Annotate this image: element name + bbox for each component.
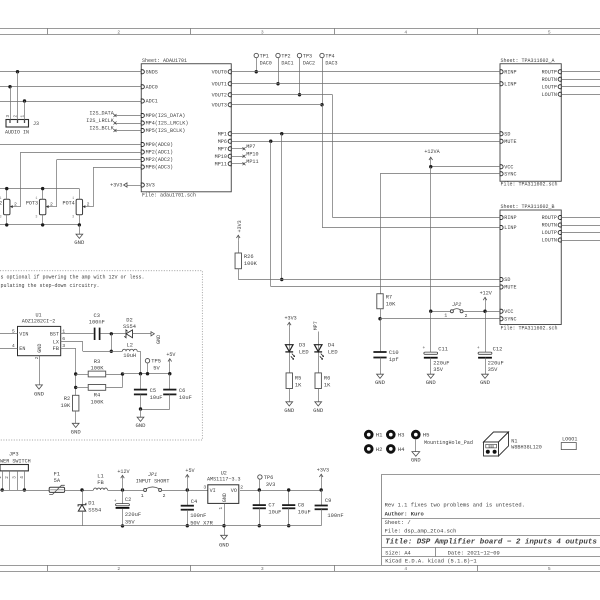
wire J3 pin2 up: [17, 72, 19, 120]
wire I2S_DATA: [115, 115, 141, 117]
svg-text:POT2: POT2: [0, 201, 2, 207]
junction TP1: [255, 70, 258, 73]
title block: [381, 474, 383, 565]
junction VCC A: [429, 165, 432, 168]
svg-text:GND: GND: [411, 458, 421, 464]
sheet B pin VCC: [500, 309, 503, 313]
svg-text:888: 888: [488, 445, 494, 449]
svg-text:C8: C8: [298, 502, 304, 508]
wire TP4 down: [322, 57, 324, 104]
svg-text:1K: 1K: [324, 382, 331, 388]
svg-text:R26: R26: [244, 254, 254, 260]
sheet A pin ROUTN: [558, 77, 561, 81]
sheet B pin ROUTN: [558, 223, 561, 227]
svg-text:1: 1: [72, 197, 74, 201]
sheet A pin ROUTP: [558, 70, 561, 74]
svg-text:+3V3: +3V3: [110, 183, 122, 189]
sheet A pin RINP: [500, 70, 503, 74]
junction SD B: [280, 278, 283, 281]
junction +12V input: [121, 488, 124, 491]
svg-text:10K: 10K: [60, 403, 70, 409]
capacitor C2: [122, 490, 124, 504]
connector J3 AUDIO IN: [6, 120, 29, 128]
svg-text:SD: SD: [504, 277, 510, 283]
svg-text:ADC1: ADC1: [146, 99, 158, 105]
svg-text:GND: GND: [219, 542, 230, 549]
svg-text:5A: 5A: [54, 478, 61, 484]
svg-text:File: adau1701.sch: File: adau1701.sch: [142, 193, 196, 199]
svg-text:4: 4: [404, 566, 407, 572]
ground D4: [318, 389, 320, 402]
svg-text:C6: C6: [179, 388, 185, 394]
svg-text:+3V3: +3V3: [317, 467, 329, 473]
svg-text:5V: 5V: [153, 366, 160, 372]
sheet A pin VCC: [500, 165, 503, 169]
wire F1 to L1: [64, 490, 93, 492]
jumper JP1 input short: [144, 489, 147, 492]
svg-text:Sheet: ADAU1701: Sheet: ADAU1701: [142, 58, 187, 64]
sheet A pin LOUTP: [558, 85, 561, 89]
svg-text:AOZ1282CI−2: AOZ1282CI−2: [22, 319, 56, 325]
svg-text:H1: H1: [376, 432, 383, 439]
pin 5 VIN: [0, 333, 18, 335]
wire MP6 down: [270, 141, 272, 286]
sheet B pin LOUTN: [558, 238, 561, 242]
svg-text:2: 2: [35, 356, 40, 359]
svg-text:2: 2: [465, 313, 468, 319]
svg-text:MP7: MP7: [218, 146, 227, 152]
border frame bottom ruler: [0, 565, 600, 567]
sheet pin GNDS: [141, 70, 144, 74]
junction JP3 pin4: [23, 488, 26, 491]
svg-text:10uF: 10uF: [150, 395, 163, 401]
ground C10: [380, 358, 382, 375]
svg-text:2: 2: [240, 485, 243, 491]
wire VOUT0 to RINP A: [231, 71, 500, 73]
junction C7 gnd: [258, 524, 261, 527]
svg-text:+: +: [477, 346, 480, 351]
svg-text:C4: C4: [191, 499, 197, 505]
junction J3 pin3: [8, 85, 11, 88]
junction MP6: [269, 140, 272, 143]
wire LOUTP A to edge: [561, 86, 600, 88]
svg-text:4: 4: [404, 29, 407, 35]
svg-text:MP10: MP10: [246, 151, 258, 157]
svg-text:+5V: +5V: [185, 468, 195, 474]
sheet pin MP4(I2S_LRCLK): [141, 121, 144, 125]
svg-text:MP1: MP1: [218, 131, 227, 137]
svg-text:LOUTP: LOUTP: [542, 230, 557, 236]
svg-text:LX: LX: [53, 339, 59, 345]
wire VOUT2 to RINP B: [333, 217, 501, 219]
svg-text:AMS1117−3.3: AMS1117−3.3: [207, 477, 241, 483]
sheet B pin LINP: [500, 226, 503, 230]
svg-text:D4: D4: [328, 342, 334, 348]
svg-text:R4: R4: [94, 393, 100, 399]
junction +3V3 C9: [320, 488, 323, 491]
svg-text:H3: H3: [398, 432, 405, 439]
sheet pin VOUT0: [228, 70, 231, 74]
svg-text:R2: R2: [64, 396, 70, 402]
svg-text:1: 1: [35, 197, 37, 201]
svg-text:VOUT2: VOUT2: [212, 92, 227, 98]
svg-text:1pf: 1pf: [389, 357, 399, 363]
resistor R5: [286, 373, 292, 389]
svg-text:MP0(I2S_DATA): MP0(I2S_DATA): [146, 113, 186, 119]
potentiometer POT4: [76, 199, 82, 215]
junction +5V main: [186, 488, 189, 491]
svg-text:MUTE: MUTE: [504, 139, 516, 145]
sheet pin MP11: [228, 162, 231, 166]
module N1 W8BH38L120: [484, 432, 509, 442]
fuse F1: [49, 487, 64, 492]
junction TP6 C7: [258, 488, 261, 491]
sheet pin VOUT1: [228, 82, 231, 86]
svg-text:VI: VI: [210, 488, 216, 494]
svg-text:DAC1: DAC1: [281, 60, 293, 66]
svg-text:10uH: 10uH: [123, 353, 136, 359]
svg-text:KiCad E.D.A. kicad (5.1.8)−1: KiCad E.D.A. kicad (5.1.8)−1: [385, 558, 476, 565]
svg-text:+3V3: +3V3: [237, 220, 243, 232]
ground C5 C6: [140, 409, 142, 417]
junction TP5: [146, 372, 149, 375]
svg-text:GND: GND: [71, 429, 82, 436]
junction TP3: [298, 93, 301, 96]
svg-text:W8BH38L120: W8BH38L120: [511, 445, 542, 451]
svg-text:3V3: 3V3: [266, 482, 276, 488]
test point TP5: [145, 359, 149, 363]
wire GNDS: [0, 71, 141, 73]
sheet B pin SD: [500, 278, 503, 282]
wire L2 right: [137, 351, 140, 353]
svg-text:35V: 35V: [488, 367, 498, 373]
svg-text:3: 3: [261, 566, 264, 572]
svg-text:100K: 100K: [91, 365, 105, 371]
svg-text:POWER SWITCH: POWER SWITCH: [0, 459, 31, 465]
svg-text:MP6: MP6: [218, 139, 227, 145]
svg-text:LOUTN: LOUTN: [542, 238, 557, 244]
svg-text:JP2: JP2: [452, 302, 461, 308]
svg-text:Sheet: TPA311602_B: Sheet: TPA311602_B: [501, 204, 555, 210]
ground U1: [36, 385, 43, 389]
svg-text:2: 2: [14, 202, 17, 208]
diode D1 SS54: [82, 490, 84, 505]
svg-text:Title: DSP Amplifier board − 2: Title: DSP Amplifier board − 2 inputs 4 …: [385, 539, 597, 547]
svg-text:100K: 100K: [244, 261, 258, 267]
svg-text:100nF: 100nF: [327, 513, 343, 519]
svg-text:JP3: JP3: [9, 451, 19, 457]
svg-text:LED: LED: [299, 349, 309, 355]
svg-text:2: 2: [87, 202, 90, 208]
svg-text:GND: GND: [37, 344, 43, 353]
wire TP3 down: [299, 57, 301, 94]
junction MP1: [280, 132, 283, 135]
svg-text:Sheet: TPA311602_A: Sheet: TPA311602_A: [501, 58, 555, 64]
wire MUTE B: [271, 286, 500, 288]
svg-text:ADC0: ADC0: [146, 84, 158, 90]
wire SYNC down: [380, 174, 382, 294]
power label +3V3 at ADAU: [127, 185, 141, 187]
svg-text:100K: 100K: [91, 400, 105, 406]
sheet pin MP1: [228, 132, 231, 136]
wire MP1 down: [281, 134, 283, 280]
wire C6 to C5 gnd: [141, 409, 170, 411]
svg-text:2: 2: [5, 476, 10, 479]
svg-text:MP10: MP10: [215, 154, 227, 160]
sheet pin VOUT3: [228, 103, 231, 107]
svg-text:D1: D1: [88, 501, 94, 507]
junction +5V C6: [168, 372, 171, 375]
svg-text:MP11: MP11: [246, 159, 258, 165]
svg-text:Size: A4: Size: A4: [385, 550, 410, 556]
dashed note box: [0, 271, 202, 440]
capacitor C5: [140, 374, 142, 390]
svg-text:LINP: LINP: [504, 81, 516, 87]
wire R3 left: [76, 374, 89, 376]
svg-text:5: 5: [548, 566, 551, 572]
svg-text:POT3: POT3: [26, 201, 38, 207]
svg-text:GND: GND: [426, 379, 437, 386]
junction J3 pin1: [23, 99, 26, 102]
resistor R7: [377, 294, 383, 309]
wire I2S_BCLK: [115, 130, 141, 132]
svg-text:MP8(ADC3): MP8(ADC3): [146, 165, 174, 171]
wire SYNC A: [380, 173, 500, 175]
svg-text:File: dsp_amp_2to4.sch: File: dsp_amp_2to4.sch: [385, 527, 457, 534]
svg-text:100nF: 100nF: [190, 513, 206, 519]
wire MP9(ADC0): [0, 144, 141, 146]
resistor R3: [88, 371, 106, 377]
svg-text:GND: GND: [156, 335, 162, 344]
svg-text:VOUT3: VOUT3: [212, 102, 227, 108]
svg-text:ROUTN: ROUTN: [542, 77, 557, 83]
junction VCC B: [483, 310, 486, 313]
sheet pin MP9(ADC0): [141, 143, 144, 147]
svg-text:TP3: TP3: [303, 53, 312, 59]
svg-text:VOUT0: VOUT0: [212, 69, 227, 75]
wire LOUTP B to edge: [561, 232, 600, 234]
svg-text:35V: 35V: [125, 519, 135, 525]
inductor L1: [94, 488, 108, 490]
svg-text:1: 1: [0, 197, 2, 201]
sheet B pin RINP: [500, 216, 503, 220]
svg-text:J3: J3: [33, 121, 39, 127]
svg-text:4: 4: [20, 476, 25, 479]
svg-text:AUDIO IN: AUDIO IN: [5, 130, 29, 136]
wire VOUT3 to LINP B: [322, 227, 500, 229]
label MP11 nc: [231, 163, 244, 165]
pin 4 EN: [0, 348, 18, 350]
svg-text:F1: F1: [54, 472, 60, 478]
border frame top ruler: [0, 28, 600, 30]
pin 2 GND: [39, 356, 41, 385]
svg-text:L2: L2: [126, 343, 132, 349]
svg-text:MP4(I2S_LRCLK): MP4(I2S_LRCLK): [146, 121, 189, 127]
wire +12VA to VCC A: [431, 166, 500, 168]
wire 12VA rail down: [430, 167, 432, 312]
inductor L2: [122, 349, 137, 351]
svg-text:10uF: 10uF: [268, 509, 281, 515]
svg-text:1K: 1K: [295, 382, 302, 388]
svg-text:2: 2: [50, 202, 53, 208]
svg-text:Date: 2021−12−09: Date: 2021−12−09: [448, 549, 500, 556]
svg-text:I2S_LRCLK: I2S_LRCLK: [86, 118, 114, 124]
svg-text:C5: C5: [150, 388, 156, 394]
svg-text:3: 3: [35, 216, 37, 220]
sheet pin MP7: [228, 147, 231, 151]
junction pot3 top: [41, 187, 44, 190]
svg-text:LOUTN: LOUTN: [542, 92, 557, 98]
junction U2 gnd: [222, 524, 225, 527]
sheet A pin MUTE: [500, 139, 503, 143]
wire MP2(ADC1): [21, 152, 142, 154]
svg-text:MP7: MP7: [246, 144, 255, 150]
junction D1: [80, 488, 83, 491]
sheet pin MP2(ADC1): [141, 150, 144, 154]
svg-text:MUTE: MUTE: [504, 285, 516, 291]
resistor R4: [88, 385, 106, 391]
sheet U_ADAU1701: [141, 64, 231, 192]
sheet pin ADC0: [141, 85, 144, 89]
wire ADC1: [0, 101, 141, 103]
svg-text:Author: Kuro: Author: Kuro: [385, 511, 425, 518]
svg-text:U1: U1: [35, 312, 41, 318]
junction TP2: [276, 82, 279, 85]
sheet B pin ROUTP: [558, 216, 561, 220]
mounting hole H5: [411, 430, 421, 440]
svg-text:INPUT SHORT: INPUT SHORT: [136, 479, 170, 485]
capacitor C12: [478, 352, 492, 354]
svg-text:R7: R7: [386, 294, 392, 300]
wire MP6 to MUTE A: [231, 141, 500, 143]
svg-text:C7: C7: [268, 502, 274, 508]
svg-text:3: 3: [13, 476, 18, 479]
label MP10 nc: [231, 156, 244, 158]
wire FB: [61, 348, 76, 350]
ground C11: [430, 358, 432, 375]
wire MP7 to D4: [318, 332, 320, 373]
wire ROUTN A to edge: [561, 79, 600, 81]
svg-text:MP7: MP7: [313, 321, 319, 330]
svg-text:TP6: TP6: [264, 475, 274, 481]
svg-text:+12V: +12V: [480, 291, 493, 297]
svg-text:DAC0: DAC0: [260, 60, 272, 66]
junction C8 top: [287, 488, 290, 491]
svg-text:MP2(ADC2): MP2(ADC2): [146, 157, 174, 163]
test point TP6: [258, 475, 262, 479]
ground U2: [221, 535, 228, 539]
svg-text:H2: H2: [376, 446, 383, 453]
junction C5 gnd: [139, 407, 142, 410]
wire I2S_LRCLK: [115, 123, 141, 125]
LED D3: [285, 345, 293, 352]
wire R4 right: [106, 387, 123, 389]
capacitor C8: [288, 490, 290, 505]
sheet pin MP5(I2S_BCLK): [141, 129, 144, 133]
svg-text:GND: GND: [313, 407, 324, 414]
wire TP2 down: [278, 57, 280, 83]
wire ROUTP A to edge: [561, 71, 600, 73]
wire MP1 to SD A: [231, 133, 500, 135]
wire ADC0: [0, 86, 141, 88]
svg-text:BST: BST: [50, 332, 59, 338]
junction J3 pin2: [16, 70, 19, 73]
wire LOUTN A to edge: [561, 94, 600, 96]
svg-text:1: 1: [20, 115, 25, 118]
svg-text:R5: R5: [295, 375, 301, 381]
sheet A pin LOUTN: [558, 92, 561, 96]
wire L1 right: [108, 490, 144, 492]
svg-text:3: 3: [261, 29, 264, 35]
svg-text:JP1: JP1: [148, 472, 157, 478]
svg-text:FB: FB: [53, 346, 60, 352]
wire 5V rail: [123, 373, 170, 375]
ground pots: [79, 225, 81, 234]
mounting hole H4: [386, 444, 396, 454]
svg-text:MP11: MP11: [215, 161, 227, 167]
svg-text:pulating the step−down circuit: pulating the step−down circuitry.: [1, 283, 100, 289]
svg-text:220uF: 220uF: [488, 360, 504, 366]
svg-text:5: 5: [12, 329, 15, 335]
wire rail to C11: [430, 311, 432, 352]
junction C3 D2: [110, 332, 113, 335]
svg-text:3: 3: [203, 485, 206, 491]
svg-text:10uF: 10uF: [179, 395, 192, 401]
mounting hole H1: [364, 430, 374, 440]
ground D3: [289, 389, 291, 402]
resistor R2: [73, 395, 79, 411]
svg-text:DAC2: DAC2: [303, 60, 315, 66]
wire R7 to SYNC B: [380, 309, 382, 319]
capacitor C7: [259, 490, 261, 505]
svg-text:H4: H4: [398, 446, 405, 453]
svg-text:TP5: TP5: [151, 359, 161, 365]
sheet pin MP2(ADC2): [141, 158, 144, 162]
sheet A pin SYNC: [500, 172, 503, 176]
svg-text:EN: EN: [19, 346, 25, 352]
junction C2 gnd: [121, 524, 124, 527]
svg-text:R6: R6: [324, 375, 330, 381]
wire C3 to D2: [101, 333, 126, 335]
svg-text:C12: C12: [493, 347, 503, 353]
junction C4 gnd: [186, 524, 189, 527]
wire R4 left: [76, 387, 89, 389]
wire SD B: [238, 279, 500, 281]
wire TP1 down: [256, 57, 258, 71]
svg-text:s optional if powering the amp: s optional if powering the amp with 12V …: [1, 274, 145, 280]
svg-text:+3V3: +3V3: [284, 316, 296, 322]
sheet B pin MUTE: [500, 285, 503, 289]
svg-text:2: 2: [13, 115, 18, 118]
resistor R6: [315, 373, 321, 389]
svg-text:VOUT1: VOUT1: [212, 81, 227, 87]
wire VOUT3: [231, 104, 322, 106]
sheet U_TPA311602_B: [500, 210, 561, 325]
svg-text:3: 3: [62, 343, 65, 349]
resistor R26: [235, 253, 241, 269]
svg-text:RINP: RINP: [504, 69, 516, 75]
ground C12: [485, 358, 487, 375]
svg-text:I2S_DATA: I2S_DATA: [89, 111, 114, 117]
junction C8 gnd: [287, 524, 290, 527]
wire J3 pin1 up: [24, 101, 26, 120]
junction FB R4: [74, 386, 77, 389]
diode D2 SS54: [126, 330, 133, 338]
svg-text:220uF: 220uF: [125, 512, 141, 518]
svg-text:L1: L1: [97, 474, 103, 480]
wire BST: [61, 333, 94, 335]
wire VOUT2: [231, 94, 332, 96]
